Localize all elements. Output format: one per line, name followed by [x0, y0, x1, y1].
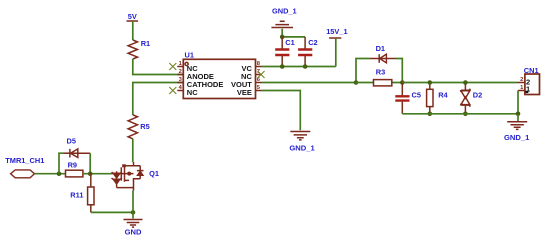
wire D5 right branch — [89, 153, 91, 174]
svg-text:2: 2 — [520, 77, 523, 83]
wire D5 left branch — [59, 153, 64, 174]
svg-text:R9: R9 — [68, 161, 77, 170]
no-connect pin 7 — [258, 71, 265, 78]
wire D1 to rejoin — [396, 59, 403, 83]
ground GND_1 right — [504, 122, 530, 142]
wire Q1 source down — [132, 191, 134, 213]
wire GND_1 to C1/C2 — [282, 29, 305, 37]
svg-text:NC: NC — [187, 88, 198, 97]
wire row to CN1 pin2 — [402, 82, 517, 84]
wire R1 to U1 ANODE — [133, 59, 184, 75]
svg-text:C5: C5 — [412, 90, 421, 99]
connector CN1 — [518, 66, 540, 94]
port TMR1_CH1 — [5, 156, 44, 178]
node branch — [354, 80, 359, 85]
optocoupler U1 — [177, 50, 261, 98]
diode D2 TVS — [460, 83, 482, 114]
node rail CN1 — [516, 112, 521, 117]
svg-text:VEE: VEE — [237, 88, 252, 97]
node R9/R11 — [88, 171, 93, 176]
pin stubs right — [256, 67, 262, 91]
capacitor C1 — [275, 37, 295, 67]
wire bottom row to junction — [91, 211, 133, 213]
resistor R1 — [128, 39, 150, 59]
svg-text:R3: R3 — [376, 68, 385, 77]
pin stubs left — [177, 67, 183, 91]
svg-text:Q1: Q1 — [149, 169, 159, 178]
ground GND bottom — [124, 220, 143, 237]
resistor R9 — [66, 161, 113, 177]
wire branch up to D1 — [356, 59, 370, 83]
wire bottom rail — [402, 113, 518, 115]
node C2 row — [303, 64, 308, 69]
svg-text:GND_1: GND_1 — [289, 144, 315, 153]
no-connect pin 4 — [169, 87, 176, 94]
svg-text:15V_1: 15V_1 — [326, 27, 347, 36]
svg-text:R1: R1 — [141, 39, 150, 48]
svg-text:C1: C1 — [285, 38, 294, 47]
resistor R11 — [70, 174, 94, 213]
svg-text:5V: 5V — [128, 12, 137, 21]
power 5V — [127, 12, 139, 21]
wire VOUT to branch — [262, 82, 357, 84]
capacitor C2 — [298, 37, 318, 67]
ground GND_1 top — [271, 7, 296, 28]
node R4 bottom — [428, 112, 433, 117]
svg-text:C2: C2 — [308, 38, 317, 47]
svg-text:U1: U1 — [185, 50, 194, 59]
wire CN1 pin1 down — [517, 91, 519, 114]
node C1 row — [280, 64, 285, 69]
svg-text:GND_1: GND_1 — [504, 133, 530, 142]
svg-text:D2: D2 — [473, 90, 482, 99]
svg-text:R11: R11 — [70, 191, 83, 200]
svg-text:GND_1: GND_1 — [272, 7, 297, 16]
node D2 top — [463, 80, 468, 85]
wire VEE to ground — [262, 91, 301, 131]
wire VC row to 15V — [262, 66, 336, 68]
wire 15V_1 down — [335, 38, 337, 67]
wire 5V to R1 — [132, 21, 134, 40]
svg-text:D5: D5 — [67, 137, 76, 146]
wire R5 to Q1 drain — [132, 139, 134, 162]
svg-text:R5: R5 — [140, 122, 149, 131]
transistor Q1 — [112, 162, 159, 191]
diode D1 — [370, 44, 396, 63]
svg-text:2: 2 — [179, 69, 182, 75]
svg-text:GND: GND — [125, 228, 142, 237]
svg-text:R4: R4 — [438, 90, 448, 99]
resistor R3 — [356, 68, 402, 86]
wire port to R9 — [35, 173, 66, 175]
svg-text:TMR1_CH1: TMR1_CH1 — [5, 156, 44, 165]
node source junction — [131, 210, 136, 215]
node D5 left — [57, 171, 62, 176]
node R4 top — [428, 80, 433, 85]
capacitor C5 — [395, 83, 421, 114]
node rejoin C5 — [400, 80, 405, 85]
power 15V_1 — [326, 27, 347, 38]
resistor R5 — [128, 115, 150, 139]
svg-text:D1: D1 — [376, 44, 385, 53]
diode D5 — [66, 137, 90, 158]
wire junction to GND — [132, 212, 134, 218]
ground GND_1 middle — [289, 132, 315, 153]
node C1/C2 top junction — [280, 35, 285, 40]
wire rail to GND — [517, 114, 519, 121]
resistor R4 — [427, 83, 449, 114]
node D2 bottom — [463, 112, 468, 117]
wire U1 CATHODE to R5 — [133, 83, 184, 116]
no-connect pin 1 — [169, 63, 176, 70]
